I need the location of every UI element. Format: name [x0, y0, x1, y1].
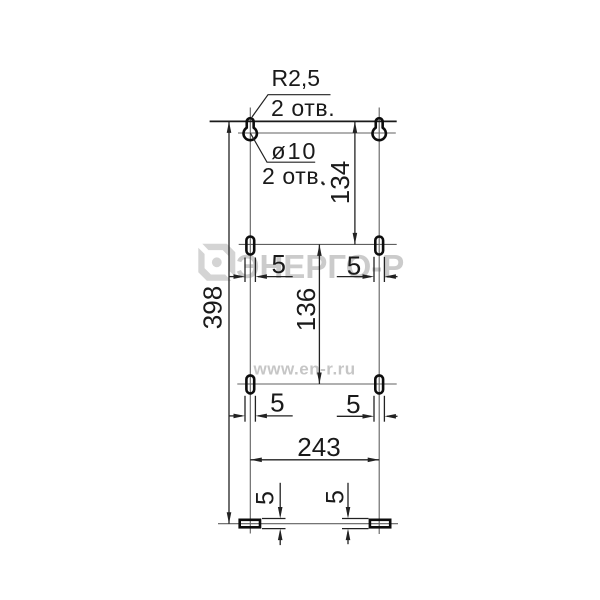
svg-text:243: 243 [297, 432, 340, 462]
leader o10 [250, 133, 315, 162]
slot row2 right [375, 237, 383, 255]
svg-text:5: 5 [270, 388, 284, 418]
svg-text:R2,5: R2,5 [272, 65, 321, 91]
dimension 5 row2 left [229, 258, 293, 283]
centerline horizontal bottom [218, 523, 398, 525]
centerline vertical left [249, 108, 251, 534]
centerline vertical right [378, 108, 380, 535]
dimension 5 row3 left [229, 396, 293, 422]
svg-text:398: 398 [198, 286, 228, 329]
svg-text:5: 5 [322, 490, 350, 504]
svg-text:136: 136 [291, 288, 321, 331]
dimension 243 [250, 458, 379, 463]
svg-text:www.en-r.ru: www.en-r.ru [253, 359, 356, 378]
dimension 5 row2 right [337, 257, 398, 282]
slot row2 left [246, 237, 254, 255]
centerline horizontal row3 [237, 383, 396, 385]
svg-text:5: 5 [252, 491, 280, 505]
keyhole hole right [373, 118, 386, 140]
stray dot [322, 183, 325, 186]
slot row3 left [246, 375, 254, 393]
bottom slot right [370, 520, 390, 528]
bottom slot left [240, 520, 260, 528]
svg-text:134: 134 [325, 161, 355, 204]
dimension 134 [353, 121, 358, 244]
dimension 5 row3 right [337, 396, 398, 422]
svg-text:2 отв.: 2 отв. [271, 95, 335, 121]
watermark logo [198, 244, 235, 281]
svg-text:5: 5 [271, 249, 285, 279]
leader R2,5 [252, 95, 331, 117]
dimension 398 [227, 121, 232, 523]
dimension 5 bottom left [262, 483, 286, 545]
top edge line [210, 120, 397, 122]
keyhole hole left [244, 118, 257, 140]
centerline horizontal keyholes [238, 132, 396, 134]
slot row3 right [375, 375, 383, 393]
svg-text:5: 5 [346, 389, 360, 419]
svg-text:ø10: ø10 [271, 138, 317, 164]
centerline horizontal row2 [239, 243, 397, 245]
svg-text:2 отв.: 2 отв. [262, 163, 326, 189]
svg-text:5: 5 [347, 250, 361, 280]
dimension 5 bottom right [342, 483, 369, 544]
dimension 136 [317, 244, 322, 384]
